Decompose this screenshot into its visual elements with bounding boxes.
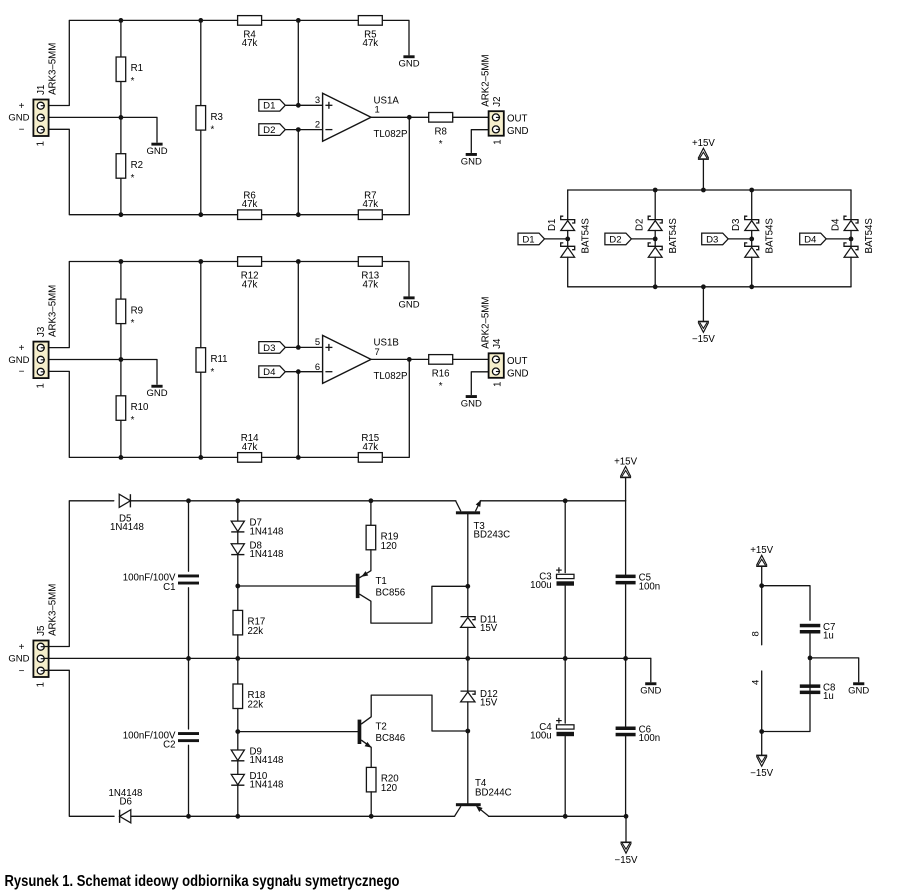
wire — [188, 588, 190, 659]
capacitor C4 — [530, 718, 574, 742]
wire — [238, 585, 356, 587]
wire — [45, 371, 238, 457]
svg-text:8: 8 — [751, 631, 762, 636]
svg-text:J5: J5 — [36, 626, 47, 636]
svg-text:J3: J3 — [36, 327, 47, 337]
wire — [120, 20, 122, 57]
wire — [467, 514, 469, 586]
svg-text:6: 6 — [315, 361, 320, 372]
wire — [188, 745, 190, 816]
svg-text:47k: 47k — [362, 199, 378, 210]
svg-text:120: 120 — [381, 783, 398, 794]
ground — [146, 385, 167, 399]
svg-text:+15V: +15V — [750, 545, 773, 556]
svg-text:*: * — [131, 173, 135, 184]
junction — [849, 237, 854, 242]
junction — [198, 212, 203, 217]
wire — [567, 257, 569, 287]
resistor R19 — [366, 525, 398, 552]
svg-text:1N4148: 1N4148 — [250, 755, 284, 766]
junction — [186, 498, 191, 503]
svg-text:BAT54S: BAT54S — [668, 218, 679, 254]
connector J1 — [33, 100, 48, 137]
svg-text:J4: J4 — [492, 338, 503, 349]
svg-text:−: − — [19, 666, 25, 677]
wire — [625, 658, 627, 726]
svg-text:BAT54S: BAT54S — [765, 218, 776, 254]
junction — [198, 18, 203, 23]
net label D3 — [702, 233, 729, 245]
svg-text:ARK3–5MM: ARK3–5MM — [48, 43, 59, 95]
svg-text:ARK3–5MM: ARK3–5MM — [48, 584, 59, 636]
junction — [119, 18, 124, 23]
ground — [398, 296, 419, 310]
wire — [850, 257, 852, 287]
wire — [120, 420, 122, 457]
ground — [146, 143, 167, 157]
junction — [465, 729, 470, 734]
wire — [453, 116, 489, 118]
wire — [45, 117, 158, 142]
junction — [235, 814, 240, 819]
resistor R9 — [116, 299, 143, 329]
ground — [461, 395, 482, 409]
wire — [564, 586, 566, 659]
svg-text:J2: J2 — [492, 96, 503, 106]
resistor R2 — [116, 154, 143, 184]
junction — [653, 237, 658, 242]
wire — [751, 257, 753, 287]
wire — [564, 736, 566, 816]
svg-text:1: 1 — [36, 141, 47, 146]
svg-text:OUT: OUT — [507, 114, 528, 125]
resistor R15 — [358, 433, 382, 462]
diode D7 — [231, 518, 283, 538]
wire — [120, 82, 122, 154]
junction — [563, 814, 568, 819]
connector J4 — [489, 353, 504, 378]
svg-text:R10: R10 — [131, 402, 149, 413]
svg-text:US1B: US1B — [374, 338, 399, 349]
resistor R12 — [238, 257, 262, 291]
svg-text:+: + — [19, 343, 25, 354]
net label D1 — [259, 100, 286, 112]
svg-text:15V: 15V — [480, 698, 498, 709]
wire — [383, 262, 409, 297]
wire — [650, 658, 652, 681]
diode D8 — [231, 540, 283, 560]
junction — [369, 498, 374, 503]
wire — [761, 671, 763, 755]
svg-text:GND: GND — [848, 686, 869, 697]
net label D2 — [605, 233, 632, 245]
wire — [237, 532, 239, 544]
transistor T1 BC856 — [356, 571, 368, 598]
-15V supply — [750, 755, 773, 779]
wire — [200, 372, 202, 457]
diode D9 — [231, 747, 283, 767]
wire — [728, 238, 752, 240]
wire — [286, 371, 323, 373]
connector J3 — [33, 342, 48, 379]
svg-text:C2: C2 — [163, 740, 175, 751]
svg-text:120: 120 — [381, 541, 398, 552]
svg-text:R1: R1 — [131, 63, 143, 74]
connector J2 — [489, 111, 504, 136]
wire — [120, 262, 122, 300]
wire — [471, 372, 491, 395]
junction — [296, 103, 301, 108]
svg-text:BAT54S: BAT54S — [581, 218, 592, 254]
wire — [237, 555, 239, 610]
schottky diode D3 lower half — [745, 243, 759, 257]
wire — [371, 358, 429, 360]
svg-text:TL082P: TL082P — [374, 371, 408, 382]
junction — [235, 656, 240, 661]
junction — [759, 583, 764, 588]
resistor R13 — [358, 257, 382, 291]
svg-text:4: 4 — [751, 680, 762, 685]
resistor R18 — [233, 684, 265, 711]
resistor R5 — [358, 16, 382, 50]
wire — [200, 20, 202, 105]
svg-text:TL082P: TL082P — [374, 129, 408, 140]
junction — [624, 814, 629, 819]
wire — [200, 130, 202, 215]
svg-text:D6: D6 — [120, 797, 132, 808]
+15V supply — [614, 456, 637, 477]
junction — [701, 188, 706, 193]
connector J5 — [33, 641, 48, 678]
net label D4 — [800, 233, 827, 245]
wire — [751, 231, 753, 247]
resistor R16 — [429, 355, 453, 392]
svg-text:−: − — [19, 366, 25, 377]
svg-text:D4: D4 — [831, 218, 842, 231]
svg-text:D3: D3 — [731, 219, 742, 231]
capacitor C5 — [616, 573, 661, 593]
wire — [467, 627, 469, 658]
svg-text:ARK2–5MM: ARK2–5MM — [481, 54, 492, 106]
junction — [235, 729, 240, 734]
junction — [119, 212, 124, 217]
junction — [186, 814, 191, 819]
wire — [286, 129, 323, 131]
svg-text:+: + — [19, 642, 25, 653]
svg-text:D3: D3 — [263, 343, 275, 354]
resistor R4 — [238, 16, 262, 50]
svg-text:GND: GND — [146, 146, 167, 157]
svg-text:BD243C: BD243C — [474, 530, 511, 541]
svg-text:BC846: BC846 — [376, 733, 406, 744]
wire — [297, 130, 299, 215]
svg-text:47k: 47k — [362, 279, 378, 290]
svg-text:1u: 1u — [823, 691, 834, 702]
svg-text:GND: GND — [461, 156, 482, 167]
svg-text:1: 1 — [36, 383, 47, 388]
junction — [119, 357, 124, 362]
svg-text:−15V: −15V — [615, 855, 638, 866]
svg-text:D4: D4 — [804, 234, 817, 245]
wire — [131, 500, 456, 502]
svg-text:GND: GND — [8, 355, 29, 366]
svg-text:GND: GND — [146, 388, 167, 399]
wire — [360, 586, 468, 623]
svg-text:GND: GND — [8, 113, 29, 124]
junction — [465, 656, 470, 661]
wire — [237, 786, 239, 817]
wire — [826, 238, 851, 240]
svg-text:+15V: +15V — [692, 138, 715, 149]
svg-text:ARK3–5MM: ARK3–5MM — [48, 285, 59, 337]
capacitor C1 — [123, 573, 199, 593]
wire — [45, 20, 238, 105]
svg-text:47k: 47k — [362, 38, 378, 49]
zener diode D11 — [461, 614, 498, 634]
junction — [759, 729, 764, 734]
wire — [567, 231, 569, 247]
svg-text:100n: 100n — [639, 581, 661, 592]
junction — [749, 188, 754, 193]
svg-text:1N4148: 1N4148 — [250, 780, 284, 791]
op-amp US1B — [315, 335, 408, 383]
junction — [296, 127, 301, 132]
schottky diode D2 lower half — [648, 243, 662, 257]
junction — [296, 369, 301, 374]
wire — [810, 658, 859, 682]
ground — [640, 682, 661, 696]
svg-text:47k: 47k — [242, 279, 258, 290]
svg-text:R2: R2 — [131, 160, 143, 171]
svg-text:*: * — [131, 415, 135, 426]
wire — [625, 501, 627, 575]
wire — [45, 129, 238, 214]
svg-text:15V: 15V — [480, 623, 498, 634]
svg-text:D1: D1 — [547, 219, 558, 231]
capacitor C8 — [800, 682, 836, 702]
svg-text:2: 2 — [315, 119, 320, 130]
wire — [383, 117, 409, 214]
diode D6 — [120, 810, 131, 823]
svg-text:R8: R8 — [435, 127, 447, 138]
wire — [762, 586, 810, 621]
wire — [654, 257, 656, 287]
junction — [235, 584, 240, 589]
wire — [370, 792, 372, 816]
svg-text:D1: D1 — [522, 234, 534, 245]
junction — [198, 259, 203, 264]
junction — [653, 284, 658, 289]
resistor R20 — [366, 767, 399, 794]
op-amp US1A — [315, 93, 408, 141]
svg-text:OUT: OUT — [507, 356, 528, 367]
wire — [631, 238, 655, 240]
wire — [383, 20, 409, 55]
transistor T2 BC846 — [358, 720, 373, 750]
svg-text:100n: 100n — [639, 733, 661, 744]
svg-text:GND: GND — [507, 368, 529, 379]
wire — [625, 585, 627, 659]
resistor R1 — [116, 57, 143, 87]
resistor R7 — [358, 191, 382, 220]
wire — [362, 740, 372, 767]
junction — [296, 455, 301, 460]
wire — [286, 104, 323, 106]
wire — [261, 456, 358, 458]
+15V supply — [750, 545, 773, 566]
wire — [45, 670, 115, 816]
wire — [261, 214, 358, 216]
wire — [188, 501, 190, 571]
wire — [45, 360, 158, 385]
diode D5 — [119, 494, 130, 507]
svg-text:R16: R16 — [432, 369, 450, 380]
wire — [297, 372, 299, 458]
svg-text:*: * — [439, 139, 443, 150]
wire — [702, 287, 704, 322]
wire — [45, 262, 238, 348]
wire — [237, 761, 239, 774]
wire — [564, 658, 566, 723]
net label D3 — [259, 342, 286, 354]
svg-text:GND: GND — [8, 654, 29, 665]
svg-text:1u: 1u — [823, 630, 834, 641]
svg-text:C1: C1 — [163, 582, 175, 593]
svg-text:5: 5 — [315, 336, 320, 347]
svg-text:D3: D3 — [706, 234, 718, 245]
svg-text:D4: D4 — [263, 367, 276, 378]
svg-text:ARK2–5MM: ARK2–5MM — [481, 297, 492, 349]
wire — [467, 658, 469, 691]
wire — [489, 815, 627, 817]
svg-text:1N4148: 1N4148 — [250, 549, 284, 560]
wire — [362, 695, 468, 731]
svg-text:−15V: −15V — [692, 334, 715, 345]
-15V supply — [615, 842, 638, 866]
wire — [188, 658, 190, 729]
junction — [119, 259, 124, 264]
wire — [297, 20, 299, 105]
capacitor C2 — [123, 730, 199, 750]
transistor T3 BD243C — [456, 499, 484, 515]
svg-text:GND: GND — [398, 300, 419, 311]
zener diode D12 — [461, 689, 498, 709]
junction — [198, 455, 203, 460]
capacitor C6 — [616, 725, 661, 745]
wire — [762, 634, 810, 732]
junction — [565, 237, 570, 242]
svg-text:T2: T2 — [376, 722, 387, 733]
svg-text:−: − — [19, 124, 25, 135]
resistor R8 — [429, 113, 453, 150]
wire — [568, 189, 851, 191]
junction — [407, 115, 412, 120]
junction — [186, 656, 191, 661]
wire — [237, 709, 239, 751]
wire — [131, 815, 455, 817]
wire — [237, 501, 239, 521]
wire — [297, 262, 299, 348]
junction — [369, 814, 374, 819]
junction — [808, 656, 813, 661]
wire — [45, 501, 114, 647]
resistor R17 — [233, 610, 265, 637]
ground — [398, 55, 419, 69]
svg-text:100u: 100u — [530, 580, 552, 591]
svg-text:1N4148: 1N4148 — [110, 522, 144, 533]
wire — [480, 500, 625, 502]
svg-text:R3: R3 — [211, 112, 223, 123]
junction — [296, 18, 301, 23]
dual schottky diode D1 BAT54S — [561, 216, 575, 230]
svg-text:100u: 100u — [530, 731, 552, 742]
junction — [119, 115, 124, 120]
wire — [45, 657, 651, 659]
wire — [625, 737, 627, 817]
svg-text:22k: 22k — [248, 626, 264, 637]
net label D2 — [259, 124, 286, 136]
svg-text:47k: 47k — [242, 38, 258, 49]
svg-text:22k: 22k — [248, 700, 264, 711]
wire — [237, 658, 239, 684]
junction — [407, 357, 412, 362]
capacitor C7 — [800, 622, 836, 642]
wire — [654, 231, 656, 247]
svg-text:*: * — [131, 318, 135, 329]
svg-text:GND: GND — [640, 686, 661, 697]
svg-text:+15V: +15V — [614, 456, 637, 467]
junction — [296, 212, 301, 217]
svg-text:1N4148: 1N4148 — [250, 526, 284, 537]
net label D4 — [259, 366, 286, 378]
svg-text:US1A: US1A — [374, 96, 400, 107]
resistor R10 — [116, 396, 149, 426]
net label D1 — [518, 233, 545, 245]
svg-text:*: * — [131, 76, 135, 87]
svg-text:BAT54S: BAT54S — [864, 218, 875, 254]
svg-text:Rysunek 1. Schemat ideowy odbi: Rysunek 1. Schemat ideowy odbiornika syg… — [5, 873, 400, 890]
resistor R6 — [238, 191, 262, 220]
wire — [371, 116, 429, 118]
svg-text:47k: 47k — [362, 442, 378, 453]
wire — [120, 324, 122, 396]
junction — [235, 498, 240, 503]
+15V supply — [692, 138, 715, 159]
svg-text:T1: T1 — [376, 576, 387, 587]
wire — [467, 702, 469, 803]
junction — [563, 656, 568, 661]
dual schottky diode D2 BAT54S — [648, 216, 662, 230]
junction — [465, 584, 470, 589]
resistor R3 — [196, 106, 223, 136]
ground — [848, 682, 869, 696]
svg-text:D2: D2 — [609, 234, 621, 245]
svg-text:*: * — [439, 381, 443, 392]
junction — [701, 284, 706, 289]
svg-text:J1: J1 — [36, 85, 47, 95]
svg-text:*: * — [211, 367, 215, 378]
junction — [296, 345, 301, 350]
schottky diode D1 lower half — [561, 243, 575, 257]
schottky diode D4 lower half — [844, 243, 858, 257]
junction — [749, 237, 754, 242]
junction — [563, 498, 568, 503]
wire — [545, 238, 568, 240]
wire — [261, 19, 358, 21]
junction — [623, 656, 628, 661]
wire — [625, 477, 627, 500]
wire — [850, 231, 852, 247]
